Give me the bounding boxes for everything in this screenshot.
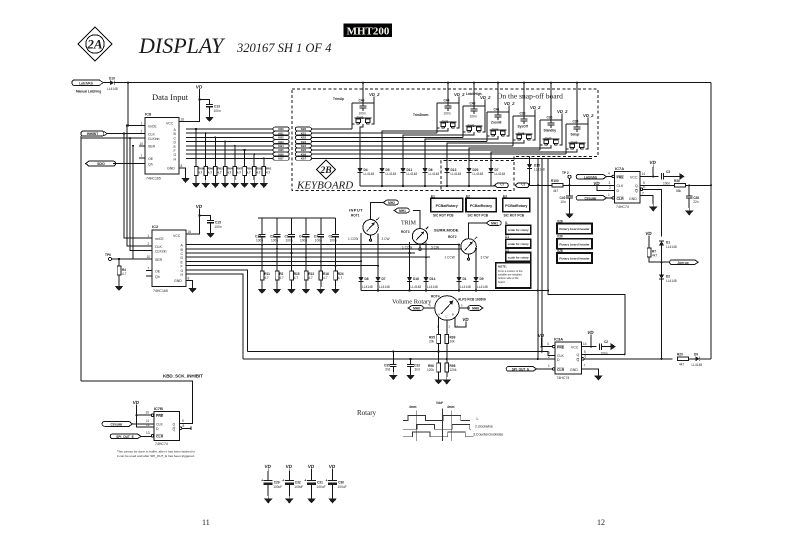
svg-text:100uF: 100uF	[273, 485, 282, 489]
test point TP6	[105, 253, 146, 261]
diode D9	[692, 352, 712, 367]
wire chain IC8 to IC2	[124, 126, 146, 260]
svg-text:1.: 1.	[476, 417, 479, 421]
svg-text:scale for rotary: scale for rotary	[508, 256, 529, 260]
svg-text:TRIM: TRIM	[401, 221, 417, 227]
power VD with resistor R7	[645, 231, 662, 262]
svg-text:74HC165: 74HC165	[153, 289, 168, 293]
svg-text:1: 1	[548, 364, 550, 368]
svg-text:16: 16	[188, 230, 192, 234]
diode D7b	[375, 277, 389, 291]
svg-text:scale for rotary: scale for rotary	[508, 228, 529, 232]
svg-text:VCC: VCC	[173, 234, 181, 238]
svg-text:20k: 20k	[429, 340, 435, 344]
svg-text:7: 7	[148, 267, 150, 271]
svg-text:4.7: 4.7	[323, 276, 328, 280]
svg-text:Circular: Circular	[584, 197, 597, 201]
test point TP2	[562, 171, 571, 185]
svg-text:R20: R20	[677, 352, 683, 356]
svg-text:+: +	[282, 478, 285, 483]
svg-text:4.7: 4.7	[122, 272, 127, 276]
net flag MH1 second	[486, 221, 501, 226]
svg-text:2.clockwise: 2.clockwise	[475, 425, 493, 429]
svg-text:4.7: 4.7	[227, 171, 232, 175]
svg-text:CLR: CLR	[557, 368, 565, 372]
header box I1 scale rotary	[505, 221, 531, 234]
svg-text:scale for rotary: scale for rotary	[508, 242, 529, 246]
svg-text:22n: 22n	[693, 200, 699, 204]
svg-text:KB2: KB2	[278, 136, 284, 140]
svg-text:100n: 100n	[444, 112, 451, 116]
svg-text:LL4148: LL4148	[386, 172, 397, 176]
header box E3 PCBatRotary	[503, 194, 530, 217]
diode D1	[659, 241, 677, 275]
svg-text:10: 10	[147, 255, 151, 259]
svg-text:KB1: KB1	[301, 131, 307, 135]
keyboard data bus lines	[312, 129, 593, 158]
svg-text:100uF: 100uF	[317, 485, 326, 489]
svg-text:2: 2	[141, 130, 143, 134]
diode D9b	[473, 277, 487, 291]
svg-text:INPUT: INPUT	[349, 208, 363, 213]
power VD at IC3A PRE	[537, 333, 552, 348]
svg-text:C38: C38	[520, 112, 526, 116]
svg-text:OE: OE	[155, 269, 161, 273]
svg-text:PCBatRotary: PCBatRotary	[470, 204, 492, 208]
svg-text:D7: D7	[382, 277, 386, 281]
svg-text:LL4148: LL4148	[477, 285, 488, 289]
svg-text:74HC165: 74HC165	[146, 177, 161, 181]
diode D11	[400, 168, 417, 186]
svg-text:KBD_SCK_INHIBIT: KBD_SCK_INHIBIT	[163, 374, 203, 379]
svg-text:56k: 56k	[676, 189, 682, 193]
resistor R99	[445, 335, 456, 360]
svg-text:GND: GND	[174, 279, 182, 283]
svg-text:KB4: KB4	[301, 144, 307, 148]
svg-text:CLK: CLK	[617, 184, 624, 188]
svg-text:Qh: Qh	[155, 275, 160, 279]
svg-text:C44: C44	[444, 99, 450, 103]
diode D5	[379, 168, 396, 186]
svg-text:KB3: KB3	[278, 140, 284, 144]
svg-text:KB6: KB6	[278, 152, 284, 156]
svg-text:KB1: KB1	[278, 131, 284, 135]
svg-text:IC3A: IC3A	[554, 337, 563, 342]
svg-text:100n: 100n	[286, 239, 293, 243]
wire diode common rail	[360, 185, 496, 187]
net flag Latch/kb	[576, 172, 612, 180]
capacitor C14 column	[255, 218, 270, 294]
svg-text:TP 2: TP 2	[562, 171, 569, 175]
svg-text:1 CCW: 1 CCW	[445, 256, 455, 260]
wire Ci to IC7A CLK	[529, 184, 615, 186]
svg-text:5: 5	[584, 350, 586, 354]
svg-text:IC8: IC8	[145, 112, 152, 117]
svg-text:ALPS RCB 163606: ALPS RCB 163606	[458, 298, 486, 302]
svg-text:13: 13	[146, 431, 150, 435]
svg-text:D1: D1	[463, 277, 467, 281]
wire	[104, 82, 111, 84]
svg-text:Standby: Standby	[544, 129, 557, 133]
diode D14	[423, 277, 437, 291]
svg-text:C41: C41	[494, 108, 500, 112]
IC IC8 74HC165	[139, 112, 186, 181]
svg-text:100n: 100n	[214, 109, 221, 113]
capacitor C29 electrolytic	[261, 464, 282, 503]
wire VD to VCC IC8	[186, 92, 200, 122]
wire top rail	[128, 82, 711, 84]
svg-text:3n3: 3n3	[385, 368, 391, 372]
svg-text:SURR.MODE: SURR.MODE	[434, 228, 459, 233]
IC IC2 74HC165	[146, 224, 193, 293]
capacitor C6 column	[329, 218, 344, 294]
diode D20	[466, 168, 483, 186]
svg-text:5: 5	[461, 304, 463, 308]
wire right border	[710, 83, 712, 358]
svg-text:LL4148: LL4148	[534, 168, 545, 172]
svg-text:LL4148: LL4148	[411, 285, 422, 289]
diode D8	[358, 277, 372, 291]
svg-text:4.7: 4.7	[198, 171, 203, 175]
svg-text:4.7: 4.7	[266, 171, 271, 175]
svg-text:100n: 100n	[470, 115, 477, 119]
diode D15 snap-off	[527, 157, 545, 186]
encoder ROT2 SURR.MODE	[434, 223, 488, 277]
wire VD to VCC IC2	[193, 211, 200, 234]
svg-text:11: 11	[202, 518, 210, 527]
pull-down resistors R69 R66 R62 R64 R67 R56 R58 R61 with taps	[192, 128, 272, 188]
power VD at IC7B	[132, 400, 153, 427]
IC IC7B 74HC74	[146, 406, 185, 446]
svg-text:320167 SH 1 OF 4: 320167 SH 1 OF 4	[236, 41, 331, 55]
svg-text:NOTE:: NOTE:	[498, 265, 507, 269]
diode D7	[488, 168, 505, 186]
svg-text:LL4148: LL4148	[451, 172, 462, 176]
svg-text:2B: 2B	[319, 166, 331, 176]
wire encoder B to IC3A D	[243, 358, 555, 360]
svg-text:74HC74: 74HC74	[616, 205, 629, 209]
svg-text:GND: GND	[629, 197, 637, 201]
svg-text:100n: 100n	[359, 112, 366, 116]
switch SW4 ZoomII with capacitor C41	[425, 101, 516, 168]
svg-text:C13: C13	[214, 105, 220, 109]
svg-text:board: board	[498, 280, 505, 284]
wire SDIO to IC8	[113, 163, 139, 165]
svg-text:2: 2	[609, 186, 611, 190]
net pill labels KB0-KB7 column 2	[295, 127, 311, 161]
svg-text:LL4148: LL4148	[473, 172, 484, 176]
svg-text:7: 7	[584, 364, 586, 368]
svg-text:8: 8	[183, 424, 185, 428]
switch SW7 Standby with capacitor C36	[469, 109, 569, 168]
svg-text:1: 1	[608, 193, 610, 197]
svg-text:KB7: KB7	[278, 157, 284, 161]
svg-text:Q: Q	[173, 423, 176, 427]
switch SW1 TrimDown with capacitor C44	[382, 92, 466, 168]
svg-text:20k: 20k	[450, 340, 456, 344]
svg-text:D1: D1	[666, 241, 670, 245]
svg-text:SDIO: SDIO	[97, 162, 105, 166]
svg-text:7: 7	[141, 154, 143, 158]
diode D6	[422, 168, 439, 186]
debounce capacitor row rail	[258, 217, 336, 219]
svg-text:bottom side of the: bottom side of the	[498, 276, 519, 280]
svg-text:10n: 10n	[561, 200, 567, 204]
svg-text:KB5: KB5	[301, 148, 307, 152]
svg-text:TrimDown: TrimDown	[413, 113, 428, 117]
svg-text:PCBatRotary: PCBatRotary	[436, 204, 458, 208]
svg-text:Q: Q	[577, 358, 580, 362]
capacitor C31 electrolytic	[304, 464, 325, 503]
svg-text:IC7B: IC7B	[154, 406, 163, 411]
svg-text:4: 4	[608, 172, 610, 176]
svg-text:C36: C36	[547, 116, 553, 120]
svg-text:R36: R36	[674, 179, 680, 183]
resistor R20	[677, 352, 696, 366]
svg-text:DISPLAY: DISPLAY	[138, 33, 226, 58]
svg-text:Ci: Ci	[521, 183, 524, 187]
svg-text:Qh: Qh	[148, 162, 153, 166]
svg-text:9: 9	[182, 419, 184, 423]
svg-text:4.7: 4.7	[208, 171, 213, 175]
svg-text:SER: SER	[148, 145, 156, 149]
snap-off lower dashed box	[441, 161, 514, 191]
wire IC2 G H bend down	[186, 270, 248, 359]
svg-text:IC2: IC2	[152, 224, 159, 229]
header X26 rotary board	[557, 220, 592, 234]
svg-text:14: 14	[642, 172, 646, 176]
svg-text:LL4148: LL4148	[427, 285, 438, 289]
ground at IC8 GND	[181, 175, 190, 183]
svg-text:3 CW: 3 CW	[431, 246, 439, 250]
ground	[115, 283, 124, 291]
wire left rail down	[80, 136, 82, 381]
svg-text:D9: D9	[694, 352, 698, 356]
svg-text:GND: GND	[570, 368, 578, 372]
svg-text:On the snap-off board: On the snap-off board	[497, 92, 563, 101]
header X30 rotary board	[557, 235, 592, 249]
IC IC3A 74HC74	[547, 337, 587, 380]
svg-text:MH1: MH1	[399, 209, 406, 213]
svg-text:14: 14	[583, 342, 587, 346]
svg-text:2: 2	[148, 242, 150, 246]
capacitor C15	[207, 221, 222, 231]
connector flag Ci left	[495, 183, 509, 188]
svg-text:ROT1: ROT1	[351, 214, 360, 218]
ground sideways	[611, 343, 616, 350]
svg-text:SysOff: SysOff	[518, 125, 529, 129]
svg-text:ROT2: ROT2	[448, 235, 457, 239]
ground	[206, 230, 215, 238]
svg-text:SER: SER	[155, 258, 163, 262]
net flag Circular IC7B	[102, 422, 154, 427]
svg-text:CLR: CLR	[156, 435, 164, 439]
wire snap-off verticals	[538, 158, 542, 359]
switch SW2 TrimUp with capacitor C46	[333, 92, 381, 168]
svg-text:120k: 120k	[450, 368, 457, 372]
svg-text:Circular: Circular	[110, 423, 123, 427]
svg-text:KB4: KB4	[278, 144, 284, 148]
svg-text:3: 3	[457, 325, 459, 329]
diode D13	[444, 168, 461, 186]
svg-text:100n: 100n	[300, 239, 307, 243]
svg-text:3 CW: 3 CW	[382, 237, 390, 241]
svg-text:TP6: TP6	[105, 253, 111, 257]
svg-text:6: 6	[585, 354, 587, 358]
waveform 3 counterclockwise	[403, 432, 474, 437]
wire Qbar IC3A	[584, 358, 672, 360]
resistor R95	[429, 335, 440, 352]
svg-text:Latch/kb: Latch/kb	[584, 175, 597, 179]
encoder ROT1 INPUT	[348, 203, 389, 278]
net flag MH2	[383, 200, 398, 205]
svg-text:VCC: VCC	[571, 346, 579, 350]
svg-text:4.7: 4.7	[247, 171, 252, 175]
svg-text:Data Input: Data Input	[152, 92, 189, 102]
svg-text:8: 8	[188, 276, 190, 280]
net flag MH1	[394, 208, 409, 213]
resistor R4	[117, 259, 126, 283]
capacitor C2	[600, 340, 611, 356]
svg-text:LL4148: LL4148	[666, 245, 677, 249]
wire VCC IC7A	[640, 175, 658, 177]
svg-text:1: 1	[148, 234, 150, 238]
svg-text:D9: D9	[480, 277, 484, 281]
ground at IC2 GND	[188, 285, 197, 293]
header box D1 scale rotary	[505, 235, 531, 248]
switch SW3 LatchHigh with capacitor C43	[403, 92, 492, 168]
wire data bus A-H	[186, 129, 273, 158]
header X28 rotary board	[557, 249, 592, 263]
wire branch to C13	[200, 100, 210, 105]
svg-text:100n: 100n	[271, 239, 278, 243]
svg-text:3: 3	[609, 181, 611, 185]
svg-text:KB2: KB2	[301, 136, 307, 140]
svg-text:MH2: MH2	[388, 201, 395, 205]
svg-text:TrimUp: TrimUp	[333, 97, 344, 101]
svg-text:4k7: 4k7	[652, 254, 657, 258]
header box E2 PCBatRotary	[466, 194, 496, 217]
waveform 1	[403, 416, 470, 421]
svg-text:B: B	[452, 313, 454, 317]
svg-text:Jam up: Jam up	[677, 261, 688, 265]
svg-text:KB0: KB0	[278, 127, 284, 131]
svg-text:100n: 100n	[256, 239, 263, 243]
net flag Jam up	[662, 260, 699, 265]
svg-text:C3: C3	[666, 170, 670, 174]
logo diamond 2A	[78, 27, 112, 61]
svg-text:D8: D8	[365, 277, 369, 281]
svg-text:PRE: PRE	[156, 414, 164, 418]
capacitor C40	[560, 185, 574, 218]
svg-text:2A: 2A	[86, 37, 103, 52]
svg-text:VCC: VCC	[166, 121, 174, 125]
wire INHIBIT to CLK	[107, 133, 139, 135]
svg-text:C2: C2	[604, 340, 608, 344]
svg-text:100n: 100n	[663, 181, 670, 185]
svg-text:Vdd*: Vdd*	[436, 401, 444, 405]
svg-text:C15: C15	[215, 221, 221, 225]
svg-text:LL4148: LL4148	[362, 285, 373, 289]
wire GND IC7A	[640, 195, 653, 204]
note box	[496, 263, 531, 288]
ground	[205, 114, 214, 122]
capacitor C26	[685, 185, 699, 215]
svg-text:LatchHigh: LatchHigh	[466, 92, 482, 96]
svg-text:4: 4	[547, 342, 549, 346]
svg-text:VCC: VCC	[630, 175, 638, 179]
switch SW8 Setup with capacitor C34	[491, 113, 595, 168]
svg-text:LL4148: LL4148	[460, 285, 471, 289]
svg-text:3n3: 3n3	[415, 368, 421, 372]
connector flag SDIO	[86, 161, 116, 166]
svg-text:PRE: PRE	[617, 175, 625, 179]
svg-text:MH1: MH1	[491, 222, 498, 226]
net flag MH8	[459, 304, 483, 311]
svg-text:it can be used and after SPI_O: it can be used and after SPI_OUT_E has b…	[117, 454, 195, 458]
svg-text:Rotary: Rotary	[357, 409, 377, 417]
resistor R100	[551, 179, 563, 193]
wire Q IC3A	[582, 353, 625, 355]
net flag Circular	[576, 193, 612, 201]
resistor R96	[427, 352, 443, 385]
capacitor C33	[406, 359, 420, 380]
svg-text:Latch/Kb: Latch/Kb	[79, 81, 93, 85]
svg-text:100n: 100n	[330, 239, 337, 243]
wire latch to IC8 pin1	[128, 83, 139, 126]
svg-text:4.7: 4.7	[264, 276, 269, 280]
svg-text:1: 1	[141, 122, 143, 126]
svg-text:+: +	[261, 478, 264, 483]
connector flag Latch/Kb	[72, 80, 103, 85]
svg-text:installer are installed: installer are installed	[498, 273, 522, 277]
svg-text:KB0: KB0	[301, 127, 307, 131]
MHT200 black title box	[344, 24, 393, 38]
svg-text:8: 8	[181, 164, 183, 168]
net flag CLR input	[506, 367, 552, 372]
power VD at IC2	[195, 204, 203, 211]
svg-text:1 CCW: 1 CCW	[348, 237, 358, 241]
node top rail junction	[127, 82, 129, 84]
svg-text:CLK: CLK	[148, 132, 155, 136]
svg-text:IC7A: IC7A	[615, 166, 624, 171]
header box E1b scale rotary	[505, 249, 531, 262]
capacitor C30 electrolytic	[325, 464, 346, 503]
wire CLKinh rail	[81, 137, 139, 139]
svg-text:C34: C34	[573, 120, 579, 124]
diode D16	[407, 277, 421, 291]
svg-text:A: A	[438, 313, 440, 317]
net pill labels KB0-KB7 column 1	[273, 127, 289, 161]
wire VCC IC3A	[582, 346, 597, 348]
svg-text:LL4148: LL4148	[407, 172, 418, 176]
svg-text:4.7: 4.7	[237, 171, 242, 175]
svg-text:4.7: 4.7	[279, 276, 284, 280]
wire encoder diode rail	[361, 158, 625, 354]
svg-text:CLKinh: CLKinh	[148, 137, 160, 141]
svg-text:10: 10	[146, 411, 150, 415]
svg-text:D16: D16	[413, 277, 419, 281]
svg-text:Volume Rotary: Volume Rotary	[392, 299, 432, 306]
svg-text:MH8: MH8	[472, 307, 479, 311]
svg-text:nnCE: nnCE	[148, 124, 157, 128]
power VD at IC8	[195, 84, 203, 91]
wire encoder A to IC3A CLK	[248, 352, 555, 356]
svg-text:D14: D14	[430, 277, 436, 281]
svg-text:1 CCW: 1 CCW	[402, 246, 412, 250]
svg-text:D19: D19	[109, 77, 115, 81]
svg-text:Rotary board header: Rotary board header	[559, 242, 590, 246]
